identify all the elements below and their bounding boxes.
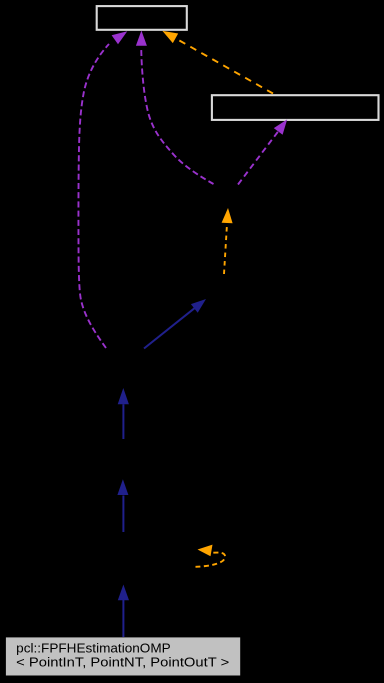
template instance edge O3 (orange dashed self-loop) [196, 545, 226, 567]
inheritance arrow A2 [117, 479, 128, 532]
template instance edge O2 (orange dashed vertical into junction node) [222, 208, 233, 274]
svg-text:pcl::FPFHEstimationOMP: pcl::FPFHEstimationOMP [16, 640, 171, 655]
usage edge P1 (left purple dashed curve to top box) [78, 31, 127, 348]
node box (right, unlabeled) [212, 95, 379, 120]
inheritance arrow A4 (diagonal) [144, 299, 206, 349]
node pcl::FPFHEstimationOMP (main) [6, 637, 240, 675]
usage edge P3 (purple dashed line from junction node to right box) [238, 119, 287, 184]
template instance edge O1 (orange dashed from right box to top box) [162, 31, 273, 94]
inheritance arrow A1 (main node to invisible parent) [118, 585, 129, 638]
inheritance arrow A3 [118, 388, 129, 439]
node box (top, unlabeled) [97, 6, 187, 30]
svg-text:< PointInT, PointNT, PointOutT: < PointInT, PointNT, PointOutT > [16, 654, 229, 669]
usage edge P2 (middle purple dashed curve from junction node to top box) [136, 31, 214, 185]
